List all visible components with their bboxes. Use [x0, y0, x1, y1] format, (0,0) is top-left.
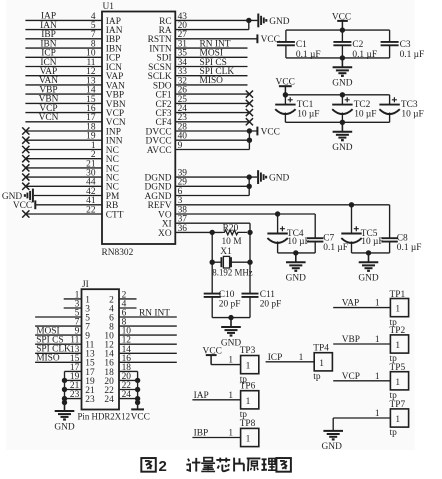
TC4 designator: [287, 229, 304, 239]
TP1 tp label: [390, 318, 398, 328]
svg-text:0.1 µF: 0.1 µF: [400, 50, 425, 60]
power VCC JI: [131, 403, 150, 423]
junction gnd rail TC group: [340, 120, 345, 125]
svg-text:VBP: VBP: [342, 335, 360, 345]
svg-text:36: 36: [178, 224, 188, 234]
U1 pin 28 DVCC wire: [146, 122, 258, 137]
svg-text:VCC: VCC: [13, 201, 32, 211]
capacitor C2 0.1 uF: [333, 30, 351, 58]
svg-text:TP5: TP5: [390, 363, 406, 373]
svg-text:22: 22: [86, 205, 96, 215]
U1 pin 31 INTN wire, net RN INT: [149, 39, 247, 54]
U1 pin 12 VAP wire, net VAP: [25, 67, 123, 82]
svg-text:TP2: TP2: [390, 326, 406, 336]
JI pin 8 wire: [109, 318, 177, 333]
TP5 designator: [390, 363, 406, 373]
C10 lower wire: [211, 297, 213, 318]
U1 part number RN8302: [102, 248, 134, 258]
svg-text:10 µF: 10 µF: [287, 237, 309, 247]
svg-text:24: 24: [122, 390, 132, 400]
JI pin 13 wire, net SPI CLK: [35, 345, 95, 360]
svg-text:GND: GND: [269, 17, 290, 27]
svg-text:TP7: TP7: [390, 400, 406, 410]
svg-text:1: 1: [395, 378, 400, 388]
svg-text:24: 24: [104, 395, 114, 405]
svg-text:VCC: VCC: [261, 35, 280, 45]
svg-text:GND: GND: [286, 274, 307, 284]
svg-text:TP4: TP4: [313, 343, 329, 353]
C3 value 0.1 uF: [400, 50, 425, 60]
JI pin 24 wire: [104, 390, 137, 405]
U1 pin 6 AGND wire: [145, 177, 250, 202]
svg-text:VCN: VCN: [39, 113, 59, 123]
C11 value 20 pF: [260, 299, 282, 309]
TP7 tp label: [390, 428, 398, 438]
junction VO at TC4: [275, 211, 280, 216]
U1 pin 24 CF3 wire (no connect): [155, 104, 249, 119]
svg-text:10 M: 10 M: [221, 237, 242, 247]
TP1 pin 1 wire, net VAP: [333, 299, 390, 309]
JI designator: [82, 280, 89, 290]
svg-text:1: 1: [299, 353, 304, 363]
U1 pin 29 DGND wire: [145, 178, 250, 193]
TC4 value 10 uF: [287, 237, 309, 247]
junction X1 left: [210, 260, 215, 265]
U1 pin 23 CF4 wire (no connect): [155, 113, 249, 128]
JI pin 14 wire: [104, 345, 176, 360]
junction gnd rail C group: [340, 55, 345, 60]
capacitor TC4 10 uF: [267, 214, 287, 253]
junction JI pin 19: [62, 378, 67, 383]
test point TP7 box: [390, 409, 408, 427]
capacitor TC3 10 uF (polarized): [379, 95, 399, 123]
U1 pin 26 CF1 wire (no connect): [155, 86, 249, 101]
crystal right branch wire: [249, 232, 251, 293]
U1 pin 2 NC wire (no connect): [25, 150, 118, 165]
TC3 designator: [401, 100, 418, 110]
svg-text:1: 1: [375, 335, 380, 345]
svg-text:TP6: TP6: [240, 381, 256, 391]
C8 designator: [397, 234, 408, 244]
U1 pin 17 VCN wire, net VCN: [25, 113, 125, 128]
U1 pin 38 VO wire/rail: [158, 205, 315, 220]
U1 pin 41 RB wire: [35, 196, 118, 211]
svg-text:20 pF: 20 pF: [219, 299, 241, 309]
VCC rail above C1-C3: [286, 29, 390, 31]
no-connect X at CF4: [246, 118, 253, 125]
svg-text:IAP: IAP: [194, 391, 209, 401]
ground rail below TC1-TC3: [285, 121, 389, 123]
svg-text:10 µF: 10 µF: [297, 109, 319, 119]
U1 pin 8 IBN wire, net IBN: [25, 39, 122, 54]
svg-text:CTT: CTT: [106, 210, 124, 220]
TC5 designator: [361, 229, 378, 239]
TC4/C7 ground rail: [278, 252, 316, 254]
U1 pin 36 XO wire: [158, 224, 222, 239]
svg-text:1: 1: [375, 299, 380, 309]
svg-text:GND: GND: [332, 143, 353, 153]
TC2 value 10 uF: [354, 109, 376, 119]
JI right vcc bus wire: [137, 371, 139, 402]
no-connect X at pin 44: [22, 183, 29, 190]
U1 pin 14 VBP wire, net VBP: [25, 85, 124, 100]
TP6 tp label: [240, 410, 248, 420]
U1 pin 11 ICN wire, net ICN: [25, 58, 122, 73]
junction crystal gnd: [228, 315, 233, 320]
no-connect X at CF1: [246, 91, 253, 98]
JI pin 19 wire: [65, 372, 95, 387]
C2 designator: [352, 40, 363, 50]
no-connect X at pin 1: [22, 146, 29, 153]
junction TC5/C8 gnd: [366, 250, 371, 255]
svg-text:9: 9: [178, 141, 183, 151]
junction on RC/RA net: [246, 18, 251, 23]
svg-text:RN INT: RN INT: [139, 308, 170, 318]
TP6 pin 1 wire, net IAP: [192, 391, 240, 401]
svg-text:10 µF: 10 µF: [354, 109, 376, 119]
svg-text:Pin HDR2X12: Pin HDR2X12: [78, 411, 131, 421]
power VCC at U1 pin 41 RB: [13, 200, 35, 211]
U1 pin 32 SDO wire, net MISO: [153, 76, 248, 91]
svg-text:XO: XO: [158, 229, 172, 239]
svg-text:IBP: IBP: [194, 429, 209, 439]
U1 pin 40 DVCC wire: [146, 132, 250, 147]
JI pin 22 wire: [104, 381, 137, 396]
no-connect X at CF2: [246, 100, 253, 107]
svg-text:1: 1: [375, 409, 380, 419]
JI pin 16 wire: [104, 354, 176, 369]
svg-text:GND: GND: [269, 174, 290, 184]
junction JI gnd bus: [62, 400, 67, 405]
TP4 tp label: [313, 372, 321, 382]
JI pin 6 wire, net RN INT: [109, 308, 177, 323]
svg-text:8.192 MHz: 8.192 MHz: [212, 267, 252, 277]
TP4 pin 1 wire, net ICP: [266, 353, 315, 363]
TP1 designator: [390, 290, 406, 300]
JI pin 3 wire: [64, 300, 91, 315]
svg-text:GND: GND: [54, 422, 75, 432]
ground symbol for DGND/AGND: [258, 170, 289, 184]
svg-text:X1: X1: [220, 247, 232, 257]
junction TC4/C7 gnd: [293, 250, 298, 255]
svg-text:GND: GND: [332, 79, 353, 89]
TP4 designator: [313, 343, 329, 353]
ground symbol TP7: [322, 431, 343, 452]
power VCC at TP3: [203, 346, 222, 364]
capacitor TC1 10 uF (polarized): [275, 95, 295, 123]
ground symbol TC group: [332, 122, 353, 153]
svg-text:1: 1: [246, 397, 251, 407]
svg-text:VAP: VAP: [342, 299, 360, 309]
svg-text:1: 1: [395, 415, 400, 425]
junction VCC rail: [340, 27, 345, 32]
C11 lower wire: [249, 297, 251, 318]
U1 pin 21 NC wire (no connect): [25, 159, 118, 174]
C7 designator: [323, 234, 334, 244]
no-connect X at CF3: [246, 109, 253, 116]
JI pin 10 wire: [104, 327, 176, 342]
U1 pin 33 SCLK wire, net SPI CLK: [148, 67, 248, 82]
C2 value 0.1 uF: [352, 50, 377, 60]
ground symbol crystal: [221, 318, 242, 349]
TP3 pin 1 wire: [211, 356, 241, 366]
TP6 designator: [240, 381, 256, 391]
TC5 value 10 uF: [361, 237, 383, 247]
U1 pin 44 NC wire (no connect): [25, 178, 118, 193]
TP5 tp label: [390, 391, 398, 401]
crystal X1 8.192 MHz: [212, 256, 250, 268]
test point TP3 box: [241, 356, 259, 374]
U1 pin 42 PM wire: [34, 187, 120, 202]
U1 pin 19 INN wire (no connect): [25, 132, 122, 147]
resistor R20 10M: [223, 230, 248, 235]
TP8 pin 1 wire, net IBP: [192, 429, 240, 439]
svg-text:1: 1: [246, 362, 251, 372]
svg-text:R20: R20: [223, 224, 239, 234]
U1 pin 22 CTT wire (no connect): [25, 205, 123, 220]
U1 pin 5 IAN wire, net IAN: [25, 21, 122, 36]
svg-text:1: 1: [228, 391, 233, 401]
no-connect X at pin 2: [22, 155, 29, 162]
svg-text:10 µF: 10 µF: [401, 109, 423, 119]
junction DGND pin39: [247, 174, 252, 179]
svg-text:GND: GND: [322, 442, 343, 452]
U1 pin 15 VBN wire, net VBN: [25, 95, 125, 110]
U1 pin 1 NC wire (no connect): [25, 141, 118, 156]
connector JI body: [82, 289, 120, 409]
svg-text:TP3: TP3: [240, 346, 256, 356]
capacitor C3 0.1 uF: [381, 30, 399, 58]
ground symbol TC4/C7: [286, 253, 307, 284]
JI pin 7 wire: [35, 318, 90, 333]
U1 pin 35 SDI wire, net MOSI: [156, 49, 247, 64]
X1 value 8.192 MHz: [212, 267, 252, 277]
JI pin 21 wire: [65, 381, 95, 396]
TP3 designator: [240, 346, 256, 356]
X1 designator: [220, 247, 232, 257]
svg-text:1: 1: [395, 305, 400, 315]
TP2 tp label: [390, 354, 398, 364]
junction VCC at TC2: [340, 92, 345, 97]
ground symbol TC5/C8: [358, 253, 379, 284]
svg-text:C1: C1: [296, 40, 307, 50]
svg-text:MISO: MISO: [200, 76, 224, 86]
JI pin 11 wire, net SPI CS: [35, 336, 95, 351]
capacitor TC2 10 uF (polarized): [332, 95, 352, 123]
svg-text:1: 1: [319, 359, 324, 369]
C11 designator: [260, 290, 276, 300]
R20 designator: [223, 224, 239, 234]
TP7 designator: [390, 400, 406, 410]
svg-text:1: 1: [246, 435, 251, 445]
JI pin 5 wire: [35, 309, 90, 324]
junction JI pin 24: [135, 396, 140, 401]
JI pin 4 wire: [109, 300, 136, 315]
JI pin 9 wire, net MOSI: [35, 326, 90, 341]
JI pin 12 wire: [104, 336, 176, 351]
crystal ground rail: [212, 317, 250, 319]
no-connect X at pin 21: [22, 164, 29, 171]
JI pin 15 wire, net MISO: [35, 354, 95, 369]
svg-text:JI: JI: [82, 280, 89, 290]
test point TP1 box: [390, 299, 408, 317]
VCC rail above TC1-TC3: [285, 94, 389, 96]
capacitor C8 0.1 uF: [381, 205, 397, 253]
junction DGND pin29: [247, 184, 252, 189]
JI pin 18 wire: [104, 363, 137, 378]
ground symbol C group: [332, 58, 353, 89]
U1 pin 7 IBP wire, net IBP: [25, 30, 120, 45]
TP7 pin 1 wire: [333, 409, 390, 419]
svg-text:GND: GND: [221, 338, 242, 348]
capacitor C10 20 pF: [204, 294, 221, 297]
svg-text:0.1 µF: 0.1 µF: [397, 243, 422, 253]
U1 pin 34 SCSN wire, net SPI CS: [148, 58, 247, 73]
U1 designator: [103, 2, 115, 12]
caption figure number 图2: [141, 458, 167, 475]
svg-text:2: 2: [159, 458, 167, 475]
C1 designator: [296, 40, 307, 50]
svg-text:1: 1: [228, 429, 233, 439]
capacitor C11 20 pF: [242, 294, 259, 297]
U1 pin 39 DGND wire: [145, 169, 258, 184]
svg-text:U1: U1: [103, 2, 115, 12]
R20 value 10 M: [221, 237, 242, 247]
crystal left branch wire: [211, 232, 213, 293]
junction JI pin 21: [62, 387, 67, 392]
svg-text:20 pF: 20 pF: [260, 299, 282, 309]
TP2 designator: [390, 326, 406, 336]
C8 value 0.1 uF: [397, 243, 422, 253]
C1 value 0.1 uF: [296, 50, 321, 60]
U1 pin 10 ICP wire, net ICP: [25, 49, 120, 64]
svg-text:1: 1: [395, 341, 400, 351]
svg-text:tp: tp: [313, 372, 321, 382]
svg-text:VCC: VCC: [261, 127, 280, 137]
capacitor C1 0.1 uF: [277, 30, 295, 58]
C10 designator: [219, 290, 235, 300]
U1 pin 30 NC wire (no connect): [25, 169, 118, 184]
U1 pin 27 RSTN wire: [148, 30, 258, 45]
C7 value 0.1 uF: [323, 243, 348, 253]
svg-text:AVCC: AVCC: [147, 146, 172, 156]
U1 pin 37 XI wire: [162, 215, 250, 233]
TC1 value 10 uF: [297, 109, 319, 119]
svg-text:TP1: TP1: [390, 290, 406, 300]
TP7 gnd drop wire: [332, 418, 334, 431]
junction REFV at TC5: [349, 202, 354, 207]
junction JI pin 20: [135, 378, 140, 383]
JI pin 17 wire: [65, 363, 95, 378]
junction XI right branch: [247, 230, 252, 235]
svg-text:RN8302: RN8302: [102, 248, 134, 258]
svg-text:VCP: VCP: [342, 372, 360, 382]
IC U1 RN8302 body: [102, 12, 175, 245]
C10 value 20 pF: [219, 299, 241, 309]
U1 pin 43 RC wire: [159, 12, 257, 27]
test point TP2 box: [390, 335, 408, 353]
no-connect X at pin 30: [22, 174, 29, 181]
JI pin 23 wire: [65, 390, 95, 405]
ground rail below C1-C3: [286, 57, 390, 59]
test point TP5 box: [390, 372, 408, 390]
ground symbol at U1 pin 42 PM: [2, 189, 33, 203]
TP2 pin 1 wire, net VBP: [333, 335, 390, 345]
JI left gnd bus wire: [64, 371, 66, 402]
caption text 计量芯片原理图: [186, 458, 291, 472]
U1 pin 18 INP wire (no connect): [25, 122, 121, 137]
TC1 designator: [297, 100, 314, 110]
capacitor TC5 10 uF: [341, 205, 361, 253]
test point TP4 box: [314, 353, 332, 371]
U1 pin 3 REFV wire/rail: [148, 196, 390, 211]
ground symbol JI: [54, 403, 75, 433]
no-connect X at pin 19: [22, 137, 29, 144]
power VCC above TC1: [276, 77, 295, 95]
TC3 value 10 uF: [401, 109, 423, 119]
JI part Pin HDR2X12: [78, 411, 131, 421]
power VCC at RSTN: [257, 34, 279, 45]
svg-text:GND: GND: [358, 274, 379, 284]
svg-text:tp: tp: [390, 428, 398, 438]
JI pin 20 wire: [104, 372, 137, 387]
JI pin 2 wire: [109, 290, 136, 305]
svg-text:1: 1: [228, 356, 233, 366]
svg-text:ICP: ICP: [268, 353, 283, 363]
junction XO left branch: [210, 230, 215, 235]
junction JI pin 22: [135, 387, 140, 392]
junction X1 right: [247, 260, 252, 265]
JI pin 1 wire: [64, 290, 91, 305]
TC2 designator: [354, 100, 371, 110]
svg-text:0.1 µF: 0.1 µF: [323, 243, 348, 253]
no-connect X at pin 18: [22, 127, 29, 134]
TP5 pin 1 wire, net VCP: [333, 372, 390, 382]
U1 pin 9 AVCC wire: [147, 131, 250, 156]
svg-text:10 µF: 10 µF: [361, 237, 383, 247]
U1 pin 25 CF2 wire (no connect): [155, 95, 249, 110]
power VCC for DVCC/AVCC: [257, 127, 279, 138]
svg-text:23: 23: [85, 395, 95, 405]
power VCC above C2: [332, 12, 351, 30]
TC5/C8 ground rail: [352, 252, 390, 254]
U1 pin 4 IAP wire, net IAP: [25, 12, 121, 27]
svg-text:1: 1: [375, 372, 380, 382]
U1 pin 16 VCP wire, net VCP: [25, 104, 124, 119]
U1 pin 13 VAN wire, net VAN: [25, 76, 125, 91]
svg-text:C3: C3: [400, 40, 411, 50]
junction DVCC pin40: [247, 138, 252, 143]
junction DVCC pin28: [247, 128, 252, 133]
junction VCC at TC1: [283, 92, 288, 97]
U1 pin 20 RA wire: [159, 20, 249, 36]
TP8 designator: [240, 419, 256, 429]
junction JI pin 23: [62, 396, 67, 401]
ground symbol for RC/RA: [258, 14, 289, 28]
capacitor C7 0.1 uF: [307, 214, 323, 253]
svg-text:23: 23: [70, 390, 80, 400]
C3 designator: [400, 40, 411, 50]
no-connect X at pin 22: [22, 210, 29, 217]
test point TP8 box: [241, 428, 259, 446]
svg-text:C2: C2: [352, 40, 363, 50]
svg-text:TP8: TP8: [240, 419, 256, 429]
test point TP6 box: [241, 391, 259, 409]
TP3 tp label: [240, 375, 248, 385]
svg-text:MISO: MISO: [36, 354, 60, 364]
junction JI vcc bus: [135, 400, 140, 405]
svg-text:VCC: VCC: [131, 412, 150, 422]
